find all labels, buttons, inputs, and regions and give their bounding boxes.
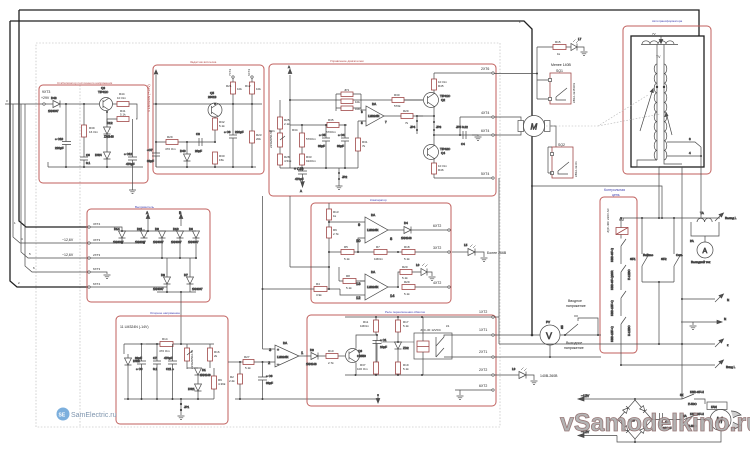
svg-text:1N4007: 1N4007 [48, 109, 59, 113]
svg-text:+ C12: + C12 [124, 152, 132, 156]
resistor R9 4.39k [212, 368, 226, 399]
svg-text:R29: R29 [404, 280, 410, 284]
svg-text:33µF: 33µF [266, 381, 273, 385]
zener DW2 [125, 354, 140, 399]
wire: divider drop [329, 267, 339, 281]
terminal 1XT2 [492, 316, 494, 318]
svg-text:Автотрансформатора: Автотрансформатора [652, 19, 682, 23]
capacitor C7f 0.1 [153, 343, 161, 399]
LED L9 [512, 367, 534, 380]
svg-text:R20: R20 [402, 265, 408, 269]
wire: secondary output down [658, 167, 660, 218]
wire relay common [435, 337, 437, 357]
svg-text:JP4: JP4 [410, 125, 416, 129]
transistor Q6 C8550 [346, 349, 367, 363]
wire: bus drop to row 4 [13, 104, 88, 243]
svg-text:220µF: 220µF [55, 146, 64, 150]
svg-text:JP3: JP3 [436, 125, 442, 129]
svg-text:KSD-15F-Q: KSD-15F-Q [610, 326, 614, 342]
svg-text:+C7: +C7 [147, 148, 153, 152]
node taps on cores [656, 86, 658, 88]
svg-text:ZW148: ZW148 [104, 135, 114, 139]
svg-text:2XT2: 2XT2 [479, 368, 487, 372]
resistor R16 2k [208, 344, 220, 368]
svg-text:R30: R30 [394, 93, 400, 97]
svg-text:R12: R12 [245, 84, 251, 88]
wire: box B mid bus [153, 103, 262, 105]
wire: input wire 9XT3 [5, 103, 43, 105]
svg-text:6XT3: 6XT3 [93, 267, 101, 271]
transformer primary bumps [642, 41, 674, 44]
wire: PV bottom to 2XT1 row [549, 345, 551, 357]
svg-text:Вводное: Вводное [568, 299, 582, 303]
diode D6 1N4007 [188, 227, 200, 258]
wire: box F top bus [124, 344, 214, 354]
node [106, 166, 108, 168]
svg-text:~12,6V: ~12,6V [62, 253, 74, 257]
diode D4 1N4148 [394, 221, 448, 240]
terminal 4XT2 [448, 286, 450, 288]
diode D1 1N4148 [187, 368, 211, 384]
svg-text:+ C6: + C6 [266, 374, 273, 378]
wire row 6XT3 to ground [90, 272, 107, 274]
diode D7 1N4007 [184, 273, 203, 292]
ground below JP1 [178, 416, 185, 420]
svg-text:M: M [531, 123, 538, 132]
svg-text:R18: R18 [404, 245, 410, 249]
diode D8 1N4007 [153, 273, 171, 292]
thermal switch KSD3 KSD-15F-Q [610, 291, 626, 316]
svg-text:5.1k: 5.1k [403, 324, 409, 328]
terminal 1XT1 [492, 334, 494, 336]
wire: inner top frame line B [10, 21, 532, 335]
wire 5XT4 row [434, 177, 492, 179]
node [186, 141, 188, 143]
potentiometer RV1 22SMD50-5k [269, 129, 285, 154]
capacitor C5 33uF [318, 124, 330, 168]
svg-text:V: V [546, 331, 552, 341]
mechanical link dashed second [598, 114, 660, 126]
svg-text:SQ2: SQ2 [558, 143, 565, 147]
ground after L7 [581, 52, 588, 56]
wire opamp1 in [329, 221, 360, 223]
svg-text:5.1k: 5.1k [344, 257, 350, 261]
wire: drop to box F [180, 292, 182, 344]
op-amp U1 LM324N [358, 102, 392, 126]
wire: KM rail [621, 217, 720, 219]
arrow out neutral row [717, 317, 726, 324]
fan supply arrow ~12V bottom [578, 430, 617, 438]
motor M1 [494, 116, 556, 148]
wire: switch bottom bus [642, 281, 674, 283]
svg-text:DW4: DW4 [95, 153, 102, 157]
diode D10 1N4007 [171, 227, 184, 258]
terminal 3XT4 [88, 226, 90, 228]
wiper arrow left [640, 89, 653, 131]
block: автотрансформатор (box H) [623, 26, 711, 174]
wire: mid row box B [156, 141, 215, 143]
resistor R21 10k [226, 79, 242, 105]
svg-text:+ C5: + C5 [319, 133, 326, 137]
wire: box A bottom bus [48, 162, 143, 167]
svg-text:R27: R27 [244, 355, 250, 359]
svg-text:10k: 10k [355, 107, 360, 111]
wire: outer top frame line A [19, 10, 699, 36]
diode D3 1N4148 [304, 348, 326, 366]
ground at JP5 [472, 135, 478, 136]
terminal 6XT4 [492, 134, 494, 136]
arrow out Выход L [715, 213, 737, 221]
resistor R6 2.7k [327, 220, 340, 289]
wire: box G top rail 1XT2 [345, 316, 493, 318]
svg-text:РА: РА [690, 239, 694, 243]
resistor R39 16 Om [82, 125, 99, 137]
svg-text:R29: R29 [403, 109, 409, 113]
svg-text:9XT3: 9XT3 [42, 90, 50, 94]
wire: primary feed arrow [659, 36, 663, 44]
svg-text:3XT4: 3XT4 [93, 222, 101, 226]
resistor R25 2.1k [278, 100, 291, 129]
capacitor C1 10uF [356, 334, 387, 363]
svg-text:2XT6: 2XT6 [481, 67, 489, 71]
node A arrow up [146, 211, 150, 232]
svg-text:R7: R7 [376, 245, 380, 249]
wire Q2-Q4 emitter chain [417, 100, 434, 145]
resistor JP1 1k top [336, 88, 361, 97]
wire: box C rail A with up arrow [288, 65, 292, 168]
ammeter PA [690, 222, 719, 264]
svg-text:6XT2: 6XT2 [433, 224, 441, 228]
svg-text:7k: 7k [362, 144, 366, 148]
svg-text:R10: R10 [328, 349, 334, 353]
svg-text:D8: D8 [161, 273, 165, 277]
wire row 2XT3 [90, 257, 196, 259]
svg-text:D7: D7 [184, 273, 188, 277]
wire: 2XT1 row to control [494, 356, 601, 358]
transistor Q3 TIP41C [98, 86, 113, 111]
switch S5 [560, 316, 598, 336]
diode D9 1N4007 [153, 227, 166, 258]
relay K1 JQC-3F 12VDC coil [414, 317, 452, 375]
resistor R20 5.1k with LED L10 [394, 265, 421, 287]
relay KM coil [616, 218, 628, 235]
svg-text:7V: 7V [652, 32, 656, 36]
node [83, 103, 85, 105]
terminal 3XT2 [448, 251, 450, 253]
terminal 3XT3 [88, 242, 90, 244]
transformer primary bar [641, 44, 678, 46]
wire: bus drop to row 5 [21, 104, 88, 258]
transformer left winding [654, 64, 657, 160]
wire row 3XT3 [90, 241, 144, 243]
wire opamp1 pin10 from divider [358, 238, 360, 252]
svg-text:6XT2: 6XT2 [479, 384, 487, 388]
svg-text:D12: D12 [107, 121, 113, 125]
jumper JP1 [180, 399, 190, 415]
transformer core lines [657, 64, 664, 160]
wire SQ2 pins [548, 147, 552, 173]
node [83, 166, 85, 168]
svg-text:D40: D40 [180, 149, 186, 153]
svg-text:A: A [703, 248, 708, 255]
svg-text:2.7k: 2.7k [333, 232, 339, 236]
wire: control loop from line B [532, 186, 662, 218]
svg-text:1N4007: 1N4007 [188, 240, 199, 244]
svg-text:4XT4: 4XT4 [481, 111, 489, 115]
svg-text:5XT4: 5XT4 [481, 172, 489, 176]
svg-text:Выходной ток: Выходной ток [691, 260, 711, 264]
svg-text:470 Om: 470 Om [159, 349, 170, 353]
svg-text:A: A [300, 189, 302, 193]
svg-text:R15: R15 [555, 40, 561, 44]
wire: box D bottom bus [157, 291, 196, 293]
resistor R28 4.51k [278, 154, 292, 168]
wire to 2XT6 [434, 72, 492, 74]
svg-text:10: 10 [356, 238, 361, 243]
fan supply arrow ~12V top [578, 394, 635, 401]
resistor R29 470 Om [165, 135, 178, 151]
tap 3 [667, 137, 701, 147]
svg-text:1N4148: 1N4148 [401, 236, 412, 240]
svg-text:3.9k: 3.9k [316, 293, 322, 297]
svg-text:R14: R14 [162, 337, 168, 341]
resistor R44 10 Om [117, 92, 129, 107]
capacitor C11 470uF [164, 344, 177, 399]
terminal 6XT3 [88, 271, 90, 273]
resistor R19 5.1k [396, 362, 410, 375]
svg-text:напряжение: напряжение [566, 304, 586, 308]
wire chain bottom exit [620, 342, 622, 365]
svg-text:Выходное: Выходное [566, 341, 582, 345]
svg-text:5.1k: 5.1k [404, 292, 410, 296]
svg-text:~12,6V: ~12,6V [62, 238, 74, 242]
block: управление двигателем (box C) [269, 64, 496, 196]
ground after L5 [481, 258, 488, 262]
svg-text:Реле переключения обмоток: Реле переключения обмоток [385, 310, 426, 314]
capacitor C10 220uF [55, 104, 71, 167]
svg-text:570k: 570k [394, 104, 401, 108]
svg-text:4.51k: 4.51k [284, 159, 292, 163]
capacitor C4b JP5 0.22 [456, 125, 468, 146]
thermal switch SA KSD-6F-H [680, 412, 710, 428]
svg-text:C4: C4 [461, 142, 465, 146]
svg-text:+ C1: + C1 [380, 338, 387, 342]
arrow out Вход L [715, 360, 736, 369]
wire R41 to zener node [107, 119, 117, 124]
wire: lamp block feed [537, 46, 554, 48]
svg-text:11 LM324N (-14V): 11 LM324N (-14V) [120, 325, 149, 329]
svg-text:Выпрямитель: Выпрямитель [135, 205, 154, 209]
svg-text:5К: 5К [680, 393, 684, 397]
wire row 6XT4 [90, 286, 167, 288]
svg-text:TIP41C: TIP41C [98, 90, 109, 94]
svg-text:JP5 0.22: JP5 0.22 [456, 125, 468, 129]
LED L10 [416, 263, 432, 276]
thermal switch KSD4 KSD-15F-Q [610, 317, 631, 342]
svg-text:33µF: 33µF [337, 144, 344, 148]
potentiometer RP 22SMD502-5k [185, 344, 195, 369]
svg-text:PV: PV [546, 320, 550, 324]
resistor R11 1MOm [360, 317, 379, 335]
svg-text:6XT2: 6XT2 [247, 68, 251, 76]
svg-text:Выход L: Выход L [725, 216, 737, 220]
diode D11 1N4007 [135, 227, 148, 244]
svg-text:R8: R8 [346, 274, 350, 278]
block: реле переключения (box G) [307, 315, 496, 406]
svg-text:LM324N: LM324N [367, 285, 378, 289]
svg-text:JP1: JP1 [344, 88, 350, 92]
op-amp U3 LM324N [356, 270, 395, 300]
node [65, 166, 67, 168]
svg-text:C6: C6 [86, 153, 90, 157]
bridge rectifier VD9 [618, 400, 652, 439]
wire: left bus line to row 1 [19, 10, 88, 227]
relay K1 contact 1 [436, 335, 492, 346]
resistor R4 3.9k [263, 282, 361, 297]
capacitor C8 220uF [224, 104, 244, 167]
resistor R30b 570k [392, 93, 404, 108]
svg-text:Н-12ВС: Н-12ВС [627, 325, 631, 336]
svg-text:КВ12-32-ВУИ3: КВ12-32-ВУИ3 [572, 83, 576, 103]
arrow terminal N row [682, 294, 729, 302]
fan FAN [707, 402, 741, 431]
svg-text:+ C10: + C10 [55, 137, 63, 141]
svg-text:1XT2: 1XT2 [479, 310, 487, 314]
terminal 5XT4 [492, 177, 494, 179]
svg-text:10k: 10k [256, 87, 261, 91]
svg-text:KSD-9F-Q20R: KSD-9F-Q20R [610, 270, 614, 290]
svg-text:Стабилизатор постоянного напря: Стабилизатор постоянного напряжения [57, 81, 113, 85]
svg-text:7k: 7k [405, 121, 409, 125]
svg-text:R46: R46 [438, 168, 444, 172]
svg-text:Управление двигателем: Управление двигателем [330, 59, 364, 63]
svg-text:R45: R45 [438, 84, 444, 88]
svg-text:5.1k: 5.1k [245, 366, 251, 370]
arrow out row k [715, 339, 729, 347]
wire: sense line from box C to comparator [263, 196, 291, 349]
wire: +29V bus in box A [45, 103, 118, 105]
wire bus to Q2 base [404, 99, 423, 101]
svg-text:D10: D10 [173, 227, 179, 231]
svg-text:1k: 1k [333, 214, 337, 218]
resistor R19e 5.1k [402, 280, 448, 296]
ground 6XT2 [457, 396, 464, 400]
wire SQ1 pins to line B [537, 80, 548, 99]
limit switch SQ1 [549, 73, 577, 104]
capacitor C12 470uF [124, 119, 137, 167]
current transformer TA [692, 211, 718, 222]
resistor R7 1MOm [374, 245, 387, 261]
wire: Вход L row [621, 364, 715, 366]
resistor R27 5.1k [239, 355, 275, 370]
wire: box C bottom bus [280, 167, 358, 169]
terminal 6XT2 [251, 76, 253, 78]
svg-text:К1: К1 [446, 324, 450, 328]
svg-text:10 Om: 10 Om [117, 96, 127, 100]
wire: inner row box C [290, 124, 302, 126]
svg-text:L5: L5 [464, 243, 468, 247]
svg-text:100 Om: 100 Om [357, 367, 368, 371]
wire: PV switch lower path [565, 334, 601, 336]
svg-text:N: N [727, 298, 729, 302]
svg-text:33µF: 33µF [318, 144, 325, 148]
svg-text:220µF: 220µF [235, 130, 244, 134]
wire: down to input rail [658, 282, 660, 344]
diode D14 1N4007 [113, 227, 126, 244]
transformer right winding [664, 64, 667, 160]
svg-text:R29: R29 [167, 135, 173, 139]
svg-text:570Om: 570Om [306, 137, 316, 141]
svg-text:D3: D3 [310, 348, 314, 352]
svg-text:–: – [277, 362, 279, 366]
terminal 2XT2 [492, 374, 494, 376]
svg-text:15k: 15k [219, 158, 224, 162]
resistor R41 5.1k [117, 109, 129, 122]
wire: 1XT1 row to PV [494, 334, 540, 336]
mains switch SF2 [661, 218, 683, 282]
wire: 2XT2 row with LED [494, 374, 519, 376]
resistor R13 1k [327, 203, 339, 220]
svg-text:D9: D9 [155, 227, 159, 231]
diode DW1 [188, 384, 202, 399]
svg-text:5.1k: 5.1k [404, 257, 410, 261]
svg-text:+29V: +29V [41, 96, 50, 100]
svg-text:SF2: SF2 [661, 257, 667, 261]
svg-text:2.1k: 2.1k [284, 122, 290, 126]
svg-text:2k: 2k [214, 354, 218, 358]
transistor Q4 TIP42C [424, 145, 452, 160]
relay K1 contact 2 [436, 348, 492, 357]
terminal 6XT4 [88, 286, 90, 288]
svg-text:470µF: 470µF [164, 356, 173, 360]
svg-text:SamElectric.ru: SamElectric.ru [71, 412, 117, 419]
jumper JP2 [338, 168, 348, 186]
wire: driver pin3 feed [263, 348, 276, 350]
resistor R12 10k [245, 79, 261, 105]
svg-text:C8550: C8550 [357, 354, 366, 358]
svg-text:Контрольная: Контрольная [604, 188, 625, 192]
block: выпрямитель (box D) [87, 209, 210, 302]
svg-text:Q6: Q6 [358, 349, 362, 353]
svg-text:L0: L0 [416, 263, 420, 267]
wire: box F bottom bus [124, 398, 214, 400]
svg-text:vSamodelkino.ru: vSamodelkino.ru [560, 409, 750, 437]
svg-text:DA: DA [371, 270, 375, 274]
resistor R29b 7k [392, 109, 423, 125]
svg-text:L7: L7 [578, 37, 582, 41]
svg-text:KSD-6F-H: KSD-6F-H [690, 390, 704, 394]
resistor R17 5.1k [396, 317, 410, 332]
resistor R15 1k [553, 40, 566, 56]
wire: neutral drop from transformer [681, 167, 683, 399]
svg-text:470 Om: 470 Om [165, 147, 176, 151]
svg-text:DW1: DW1 [188, 387, 195, 391]
capacitor C9f 33uF [135, 343, 146, 399]
capacitor C2 100uF [652, 413, 682, 430]
svg-text:Опорное напряжение: Опорное напряжение [150, 311, 180, 315]
wire: bus drop to row 6 [25, 104, 88, 272]
svg-text:2XT1: 2XT1 [479, 350, 487, 354]
svg-text:1N4007: 1N4007 [153, 287, 164, 291]
svg-text:4 LM324N (+19V): 4 LM324N (+19V) [147, 84, 151, 112]
svg-text:1N4148: 1N4148 [306, 362, 317, 366]
wire R39 stems [83, 104, 85, 157]
svg-text:7XT2: 7XT2 [228, 68, 232, 76]
diode D40 [180, 142, 191, 167]
dashed board outline [36, 43, 500, 427]
svg-text:~12V: ~12V [581, 394, 590, 398]
resistor R34 570Om [292, 125, 316, 154]
